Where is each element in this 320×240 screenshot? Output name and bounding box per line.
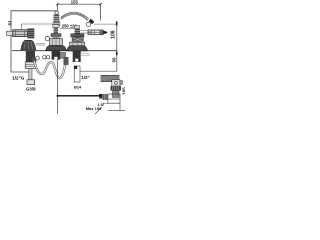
- wall holder flange: [101, 75, 119, 81]
- wall tab fitting: [8, 22, 12, 25]
- dimension Max 150 line: [58, 95, 101, 97]
- svg-text:1/2"G: 1/2"G: [12, 76, 25, 81]
- coiled hose core: [34, 61, 65, 78]
- right faucet shank: [73, 51, 81, 62]
- shank side lines: [81, 54, 90, 56]
- holder ring box: [112, 80, 120, 86]
- link wires dome to body: [36, 43, 45, 45]
- node: [57, 95, 59, 97]
- holder drop line: [119, 103, 121, 110]
- right faucet dome flange: [67, 46, 88, 51]
- spray nozzle tip: [103, 31, 107, 35]
- center faucet body: [50, 39, 63, 48]
- right handle block: [72, 37, 83, 42]
- center faucet cap: [53, 25, 59, 28]
- holder bottom line: [108, 110, 125, 112]
- svg-text:105: 105: [121, 87, 125, 95]
- coiled hose right fitting: [64, 57, 69, 65]
- right handle band: [71, 34, 84, 37]
- hose top fitting: [55, 11, 58, 14]
- o-rings pair: [43, 56, 46, 59]
- left valve block: [28, 28, 35, 38]
- coiled hose: [34, 61, 65, 78]
- dimension 108 line: [116, 24, 118, 71]
- svg-text:G3/8: G3/8: [26, 87, 36, 92]
- left handle cylinder: [13, 30, 28, 37]
- center faucet neck: [53, 37, 60, 39]
- left escutcheon dome: [21, 40, 36, 50]
- supply pipe box: [74, 66, 80, 82]
- coiled hose left fitting: [32, 58, 36, 63]
- left supply tube: [29, 69, 32, 80]
- holder hatch column: [103, 94, 108, 100]
- hose (plan view, 3 strands): [61, 12, 89, 20]
- right faucet cap: [75, 26, 80, 29]
- left nut: [25, 62, 35, 69]
- right faucet body: [70, 42, 85, 47]
- plan supply pipe wire: [22, 24, 54, 30]
- hand spray (side view): [88, 30, 103, 35]
- spray holder link wires: [80, 30, 88, 33]
- diagonal leader: [95, 107, 102, 114]
- right faucet stem: [75, 28, 80, 34]
- center faucet shank: [52, 51, 60, 60]
- svg-text:155: 155: [71, 0, 79, 5]
- leader to dim 108: [94, 23, 117, 25]
- dimension 155 line: [58, 4, 101, 20]
- holder hatch band: [111, 86, 122, 91]
- center faucet dome flange: [46, 45, 67, 50]
- left handle tip: [7, 31, 13, 35]
- holder bottom box: [108, 94, 120, 103]
- center faucet collar: [51, 34, 61, 37]
- svg-text:1/2": 1/2": [81, 75, 89, 80]
- left tee fitting: [27, 80, 35, 85]
- plan outline wire: [11, 11, 58, 72]
- deck line: [12, 50, 117, 52]
- wall line: [80, 70, 117, 72]
- centerline: [57, 60, 59, 115]
- holder side nub: [120, 81, 123, 85]
- arrow: [99, 94, 102, 99]
- svg-text:108: 108: [111, 30, 117, 39]
- spray head (plan): [89, 19, 95, 24]
- center faucet stem: [54, 27, 58, 33]
- aerator screw: [45, 36, 49, 40]
- left o-ring: [36, 56, 40, 60]
- left shank below deck: [26, 51, 35, 62]
- holder lower block: [113, 91, 120, 98]
- dimension 155 tick slashes: [56, 3, 102, 6]
- svg-text:Ø24: Ø24: [74, 84, 82, 89]
- shank side nut: [60, 52, 66, 58]
- svg-text:50: 50: [112, 57, 117, 63]
- dim tick at deck: [116, 52, 118, 56]
